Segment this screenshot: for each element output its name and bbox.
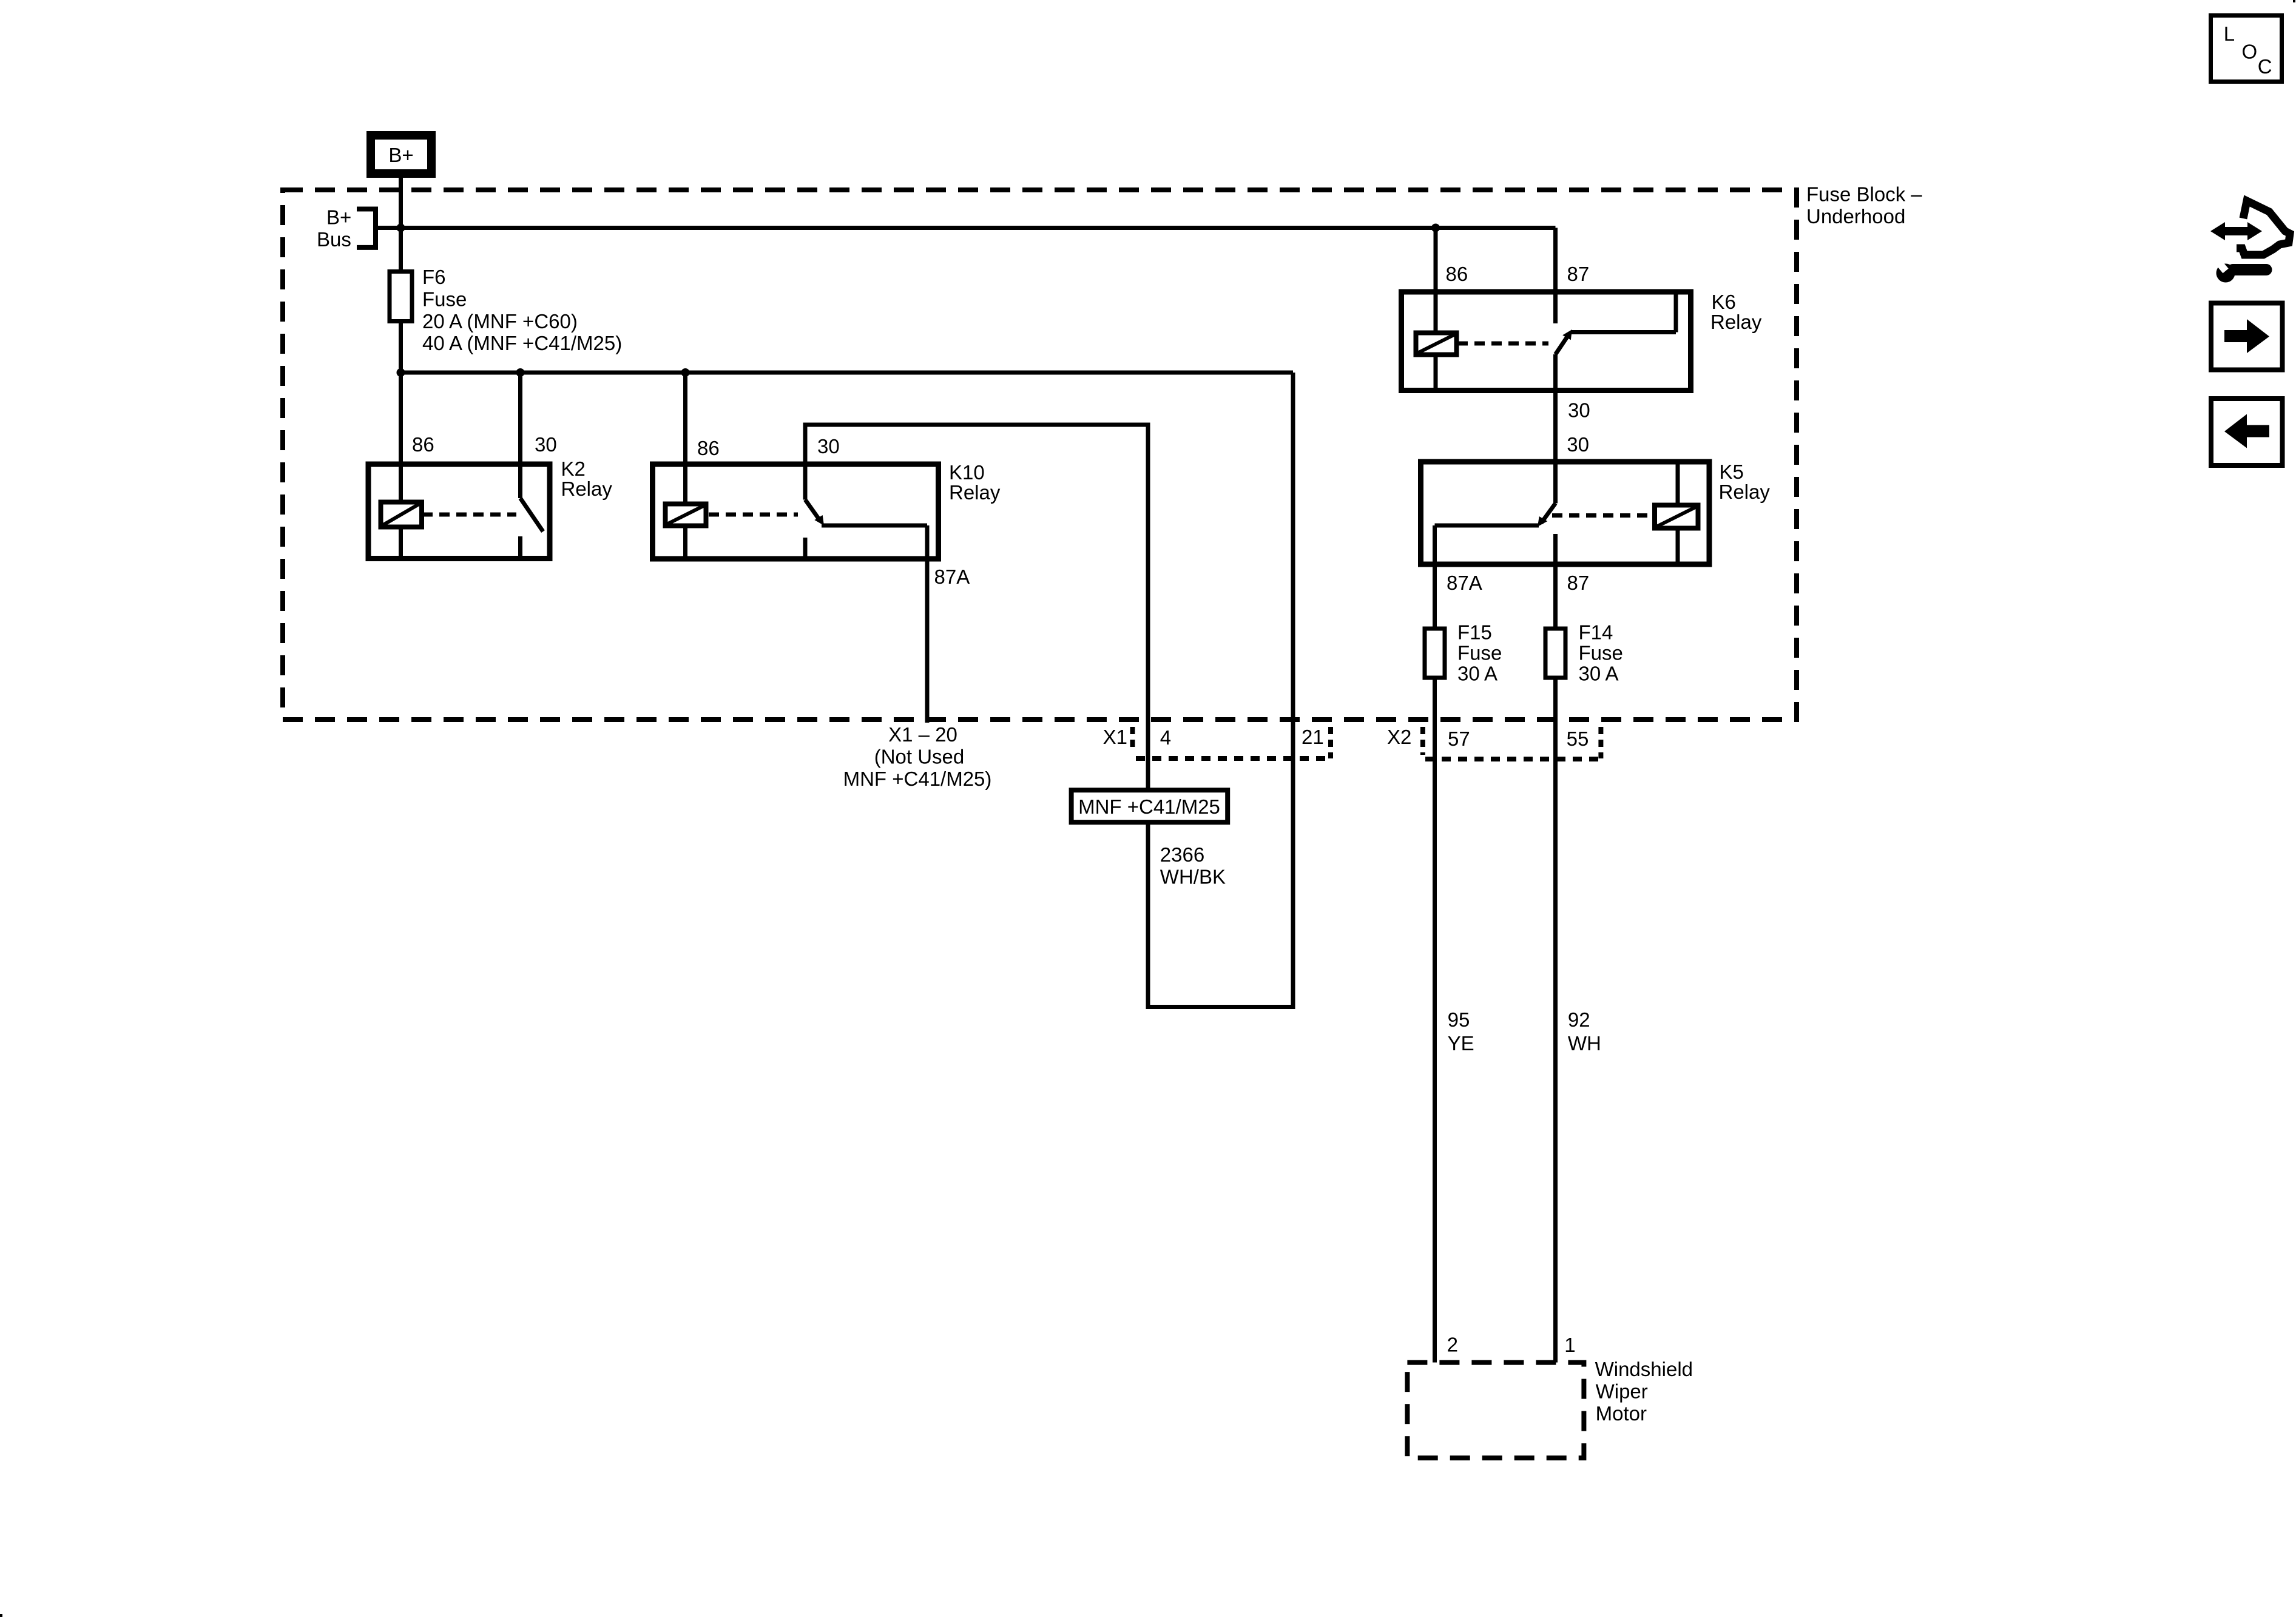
K10 pin labels <box>697 435 970 588</box>
svg-text:WH: WH <box>1568 1032 1601 1055</box>
svg-text:O: O <box>2242 41 2258 63</box>
svg-text:30: 30 <box>817 435 840 457</box>
svg-text:57: 57 <box>1448 727 1470 750</box>
svg-text:K2: K2 <box>561 457 586 480</box>
svg-text:B+: B+ <box>388 144 413 166</box>
svg-text:Relay: Relay <box>1710 311 1762 333</box>
svg-text:30: 30 <box>1568 399 1590 422</box>
svg-text:92: 92 <box>1568 1008 1590 1031</box>
K2 lower contact stub <box>518 536 522 559</box>
svg-text:95: 95 <box>1448 1008 1470 1031</box>
svg-text:Bus: Bus <box>317 228 351 251</box>
wire bus2 to K2 pin 30 <box>518 373 522 464</box>
X1-20 not used label <box>843 723 992 790</box>
K5 switch output to 87A <box>1435 524 1539 528</box>
svg-text:2: 2 <box>1447 1333 1458 1355</box>
svg-text:X1: X1 <box>1103 726 1127 748</box>
jump-to icon wrench <box>2214 258 2266 283</box>
K2 coil <box>381 502 422 527</box>
svg-text:4: 4 <box>1160 726 1171 749</box>
svg-text:86: 86 <box>697 437 720 459</box>
wire K10 pin30 loop through X1-4 / X1-21 (2366 WH/BK circuit) <box>805 373 1293 1007</box>
svg-text:Underhood: Underhood <box>1806 205 1905 228</box>
relay K10 <box>653 464 939 723</box>
svg-text:(Not Used: (Not Used <box>874 746 965 768</box>
motor pin labels <box>1447 1333 1576 1356</box>
wire B+ to F6 <box>399 178 403 269</box>
K10 lower contact stub <box>803 538 808 559</box>
relay K5 <box>1421 462 1710 627</box>
wire bus2 to K10 pin 86 <box>683 373 687 464</box>
windshield wiper motor box <box>1407 1363 1584 1458</box>
K10 switch output wire to 87A <box>822 524 927 528</box>
svg-text:MNF +C41/M25): MNF +C41/M25) <box>843 768 992 790</box>
F15 value label <box>1457 621 1502 684</box>
svg-text:Relay: Relay <box>561 478 613 500</box>
wire K6 pin30 to K5 pin30 <box>1553 354 1558 504</box>
fuse block label <box>1806 183 1922 228</box>
svg-text:30: 30 <box>1567 433 1589 456</box>
K5 coil <box>1655 505 1698 528</box>
page corner mark top-right <box>2293 0 2295 2</box>
svg-text:B+: B+ <box>326 206 351 229</box>
svg-text:F15: F15 <box>1457 621 1492 643</box>
svg-text:K10: K10 <box>949 461 985 484</box>
svg-text:Windshield: Windshield <box>1595 1358 1693 1380</box>
svg-text:K6: K6 <box>1712 291 1736 313</box>
F6 value label <box>422 266 622 354</box>
wire 2366 WH/BK label <box>1160 843 1226 888</box>
K2 name label <box>561 457 613 500</box>
K10 coil <box>666 504 706 526</box>
page corner mark bottom-left <box>0 1614 2 1617</box>
wire bus2 <box>401 371 1294 375</box>
wire B+ bus (bus1) <box>376 226 1556 230</box>
jump-to icon hook shape <box>2237 201 2290 255</box>
svg-text:F6: F6 <box>422 266 446 288</box>
K5 switch blade <box>1541 504 1556 524</box>
K6 coil stub <box>1434 355 1438 391</box>
svg-text:Fuse: Fuse <box>1579 641 1623 664</box>
K2 pin labels <box>412 433 557 456</box>
windshield wiper motor label <box>1595 1358 1693 1425</box>
svg-text:X2: X2 <box>1387 726 1411 748</box>
K5 coil stubs <box>1676 462 1680 505</box>
svg-text:K5: K5 <box>1720 461 1744 483</box>
svg-text:1: 1 <box>1564 1334 1575 1356</box>
svg-text:87A: 87A <box>934 565 970 588</box>
relay K6 <box>1402 228 1691 391</box>
svg-text:C: C <box>2258 55 2272 78</box>
K2 coil-switch dashed link <box>422 513 516 517</box>
MNF +C41/M25 box <box>1072 790 1228 822</box>
F14 value label <box>1579 621 1623 684</box>
svg-text:30 A: 30 A <box>1579 662 1619 684</box>
K6 pin 87 wire <box>1553 228 1558 324</box>
B+ Bus bracket <box>357 209 376 248</box>
LOC box icon <box>2211 16 2282 82</box>
relay K2 <box>368 464 550 559</box>
wire F15 to motor pin 2 (95 YE) <box>1433 678 1437 1363</box>
K2 pin30 inner wire <box>518 464 522 498</box>
fuse F6 <box>390 272 412 322</box>
K5 pin 87 wire <box>1553 534 1558 627</box>
K6 pin labels <box>1446 263 1590 422</box>
K5 pin labels <box>1447 433 1589 594</box>
K6 coil <box>1416 333 1457 355</box>
node junction bus1/F6 <box>397 224 405 232</box>
K6 switch blade <box>1556 333 1570 354</box>
svg-text:86: 86 <box>1446 263 1468 285</box>
K5 name label <box>1719 461 1771 503</box>
svg-text:Fuse: Fuse <box>1457 641 1502 664</box>
svg-text:30: 30 <box>535 433 557 456</box>
svg-text:L: L <box>2224 22 2235 45</box>
B+ terminal box <box>371 135 431 174</box>
K5 coil-switch dashed link <box>1552 513 1653 518</box>
svg-text:Relay: Relay <box>1719 481 1771 503</box>
wire F6 to K2 pin 86 <box>399 323 403 464</box>
X1 pin labels <box>1103 726 1324 749</box>
svg-text:87A: 87A <box>1447 572 1482 594</box>
fuse F15 <box>1425 629 1445 678</box>
K10 switch blade <box>805 500 819 520</box>
K2 coil stubs <box>399 464 403 502</box>
svg-text:MNF +C41/M25: MNF +C41/M25 <box>1078 795 1220 818</box>
K10 coil-switch dashed link <box>709 513 798 517</box>
svg-text:YE: YE <box>1448 1032 1474 1055</box>
svg-text:F14: F14 <box>1579 621 1613 643</box>
K6 name label <box>1710 291 1762 333</box>
svg-text:Fuse: Fuse <box>422 288 467 310</box>
svg-text:20 A (MNF +C60): 20 A (MNF +C60) <box>422 310 578 333</box>
svg-text:21: 21 <box>1302 726 1324 748</box>
svg-text:Fuse Block –: Fuse Block – <box>1806 183 1922 206</box>
node junction bus2/F6 <box>397 368 405 377</box>
X2 pin labels <box>1387 726 1589 750</box>
svg-text:30 A: 30 A <box>1457 662 1497 684</box>
fuse block border (Fuse Block - Underhood dashed box) <box>283 190 1797 720</box>
B+ Bus label <box>317 206 351 251</box>
fuse F14 <box>1545 629 1565 678</box>
K10 name label <box>949 461 1001 504</box>
jump-to icon double arrow <box>2210 222 2262 240</box>
K10 coil stubs <box>683 464 687 504</box>
K6 switch output to 87 rail <box>1571 330 1676 334</box>
K6 coil-switch dashed link <box>1457 342 1548 346</box>
K2 switch blade <box>521 498 544 532</box>
wire 95 YE label <box>1448 1008 1474 1055</box>
svg-text:87: 87 <box>1567 572 1590 594</box>
svg-text:2366: 2366 <box>1160 843 1204 866</box>
node junction bus2/K2-30 <box>516 368 525 377</box>
connector X2 <box>1423 727 1601 759</box>
left arrow box icon <box>2211 399 2283 465</box>
K6 pin 86 wire <box>1434 228 1438 333</box>
svg-text:86: 86 <box>412 433 434 456</box>
connector X1 <box>1133 727 1331 758</box>
wire 92 WH label <box>1568 1008 1601 1055</box>
right arrow box icon <box>2211 303 2283 370</box>
svg-text:WH/BK: WH/BK <box>1160 866 1226 888</box>
node junction bus1/K6-86 <box>1431 224 1440 232</box>
svg-text:55: 55 <box>1567 727 1589 750</box>
svg-text:87: 87 <box>1567 263 1590 285</box>
svg-text:40 A (MNF +C41/M25): 40 A (MNF +C41/M25) <box>422 332 622 354</box>
svg-text:Wiper: Wiper <box>1596 1380 1648 1403</box>
svg-text:Relay: Relay <box>949 481 1001 504</box>
svg-text:Motor: Motor <box>1596 1402 1647 1425</box>
svg-text:X1 – 20: X1 – 20 <box>888 723 957 746</box>
wire F14 to motor pin 1 (92 WH) <box>1553 678 1558 1363</box>
node junction bus2/K10-86 <box>681 368 690 377</box>
